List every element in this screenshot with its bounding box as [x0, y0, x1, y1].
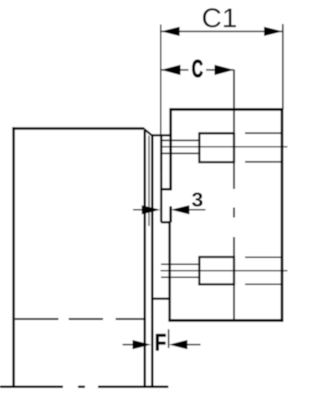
gearbox bottom edge — [168, 319, 283, 322]
housing lower-left vertical — [168, 221, 170, 320]
dimension C1 left arrow — [161, 27, 180, 36]
dimension F label — [156, 334, 166, 351]
bolt B1 thread top line — [245, 132, 282, 134]
bolt B2 shank top line — [161, 263, 199, 265]
dimension 3 right arrow — [171, 205, 190, 214]
dimension C line left segment — [161, 69, 189, 71]
adapter plate left edge — [151, 135, 153, 388]
dimension F right extension line — [168, 329, 170, 348]
dimension C1 line — [161, 30, 283, 32]
dimension F right tail — [187, 344, 201, 346]
dimension C1 right extension line — [282, 24, 284, 109]
bolt B2 thread top line — [245, 256, 282, 258]
bolt B1 head — [199, 133, 234, 162]
dimension C1 left extension line — [160, 25, 162, 173]
bolt B1 shank top line — [161, 139, 199, 141]
dimension F left tail — [123, 344, 134, 346]
bolt B2 thread bottom line — [245, 283, 282, 285]
adapter plate top edge — [151, 134, 171, 136]
gearbox top edge — [169, 108, 283, 111]
dimension C right arrow — [215, 65, 235, 75]
bolt B2 head — [199, 257, 234, 284]
dimension F right arrow — [169, 340, 188, 349]
adapter plate right edge — [160, 135, 162, 222]
spigot notch top line — [161, 188, 172, 190]
dimension C1 label — [203, 8, 236, 27]
dimension 3 right tail — [189, 209, 206, 211]
dimension C1 right arrow — [264, 27, 283, 36]
bolt B1 shank bottom line — [161, 152, 199, 154]
bolt B1 axis line — [161, 146, 288, 148]
bolt B1 thread bottom line — [245, 161, 282, 163]
plate lower connector — [152, 298, 169, 300]
motor body left edge — [12, 127, 15, 388]
dimension C left arrow — [161, 65, 181, 75]
dimension C line right segment — [206, 69, 234, 71]
gearbox face upper — [169, 109, 172, 189]
dimension C label — [192, 60, 202, 78]
vertical centerline (C extension) — [233, 70, 235, 190]
main axis dash-dot centerline — [0, 386, 63, 388]
motor hidden dashed line — [15, 318, 59, 320]
gearbox face lower — [169, 206, 172, 222]
dimension 3 label — [192, 193, 203, 207]
motor right edge — [143, 131, 145, 389]
dimension 3 left tail — [133, 209, 144, 211]
dimension 3 left arrow — [142, 205, 161, 214]
bolt B2 axis line — [161, 270, 288, 272]
motor corner chamfer — [143, 128, 152, 136]
bolt B2 shank bottom line — [161, 276, 199, 278]
gearbox right edge — [281, 108, 284, 322]
adapter plate thin inner line — [148, 136, 150, 226]
motor body top edge — [12, 127, 143, 129]
plate step connector — [161, 221, 170, 223]
dimension F left arrow — [133, 340, 152, 349]
